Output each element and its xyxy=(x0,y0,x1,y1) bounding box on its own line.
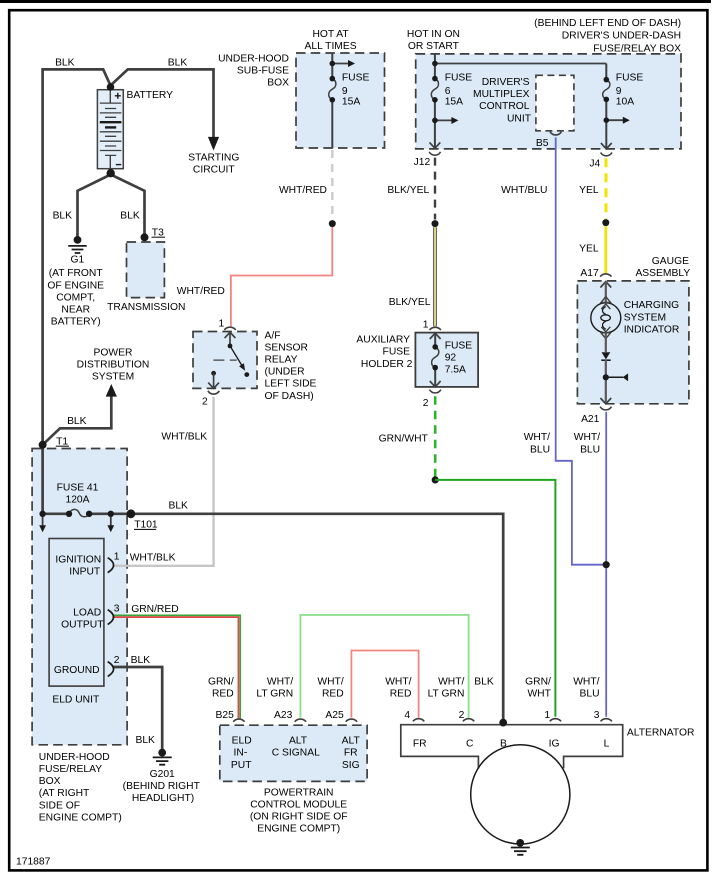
svg-text:WHT/: WHT/ xyxy=(267,676,293,687)
svg-text:RED: RED xyxy=(322,689,344,700)
wire BLK battery negative to ground G1 xyxy=(78,175,111,237)
svg-text:WHT/: WHT/ xyxy=(524,432,550,443)
svg-text:FUSE: FUSE xyxy=(445,72,473,83)
svg-text:FUSE: FUSE xyxy=(616,72,644,83)
svg-text:YEL: YEL xyxy=(579,185,599,196)
svg-text:1: 1 xyxy=(218,318,224,329)
svg-text:BLK/YEL: BLK/YEL xyxy=(387,185,429,196)
svg-text:BLU: BLU xyxy=(580,444,600,455)
svg-text:YEL: YEL xyxy=(579,244,599,255)
svg-text:BLK: BLK xyxy=(120,210,140,221)
svg-text:3: 3 xyxy=(594,710,600,721)
node YEL splice xyxy=(602,219,609,226)
svg-text:2: 2 xyxy=(202,396,208,407)
svg-text:FUSE: FUSE xyxy=(445,340,473,351)
under-hood fuse/relay box xyxy=(32,449,127,745)
svg-text:BATTERY: BATTERY xyxy=(127,90,174,101)
wire WHT/RED dashed below sub-fuse box xyxy=(331,150,333,220)
pin 4 connector xyxy=(413,719,424,722)
svg-text:WHT/RED: WHT/RED xyxy=(279,185,327,196)
svg-text:BLK: BLK xyxy=(168,58,188,69)
wire GRN/WHT dashed below aux fuse pin 2 xyxy=(434,396,437,477)
svg-text:ELD: ELD xyxy=(232,736,252,747)
pin 2 connector of auxiliary fuse holder xyxy=(430,390,441,393)
node sub-fuse branch dot xyxy=(330,61,336,67)
node T101 xyxy=(126,509,135,518)
svg-text:ALTERNATOR: ALTERNATOR xyxy=(627,728,695,739)
svg-text:L: L xyxy=(604,738,610,749)
node fuse 6 terminals and branch dots xyxy=(432,61,438,67)
svg-text:FUSE/RELAY: FUSE/RELAY xyxy=(39,764,102,775)
node WHT/BLU junction xyxy=(603,561,610,568)
wire inside driver's box fuse 9 10A xyxy=(605,64,607,149)
svg-text:(BEHIND LEFT END OF DASH): (BEHIND LEFT END OF DASH) xyxy=(534,18,681,29)
svg-text:3: 3 xyxy=(114,603,120,614)
wire BLK/YEL dashed below J12 xyxy=(434,158,436,220)
svg-text:FR: FR xyxy=(413,738,427,749)
svg-text:BOX: BOX xyxy=(267,78,289,89)
fuse 41 branch arrow left xyxy=(42,517,44,526)
svg-text:1: 1 xyxy=(544,710,550,721)
svg-text:C SIGNAL: C SIGNAL xyxy=(272,748,320,759)
svg-text:15A: 15A xyxy=(445,97,463,108)
node WHT/RED splice xyxy=(329,220,336,227)
svg-text:AUXILIARY: AUXILIARY xyxy=(356,335,410,346)
svg-text:GROUND: GROUND xyxy=(54,665,100,676)
svg-text:MULTIPLEX: MULTIPLEX xyxy=(473,89,530,100)
svg-text:RED: RED xyxy=(390,689,412,700)
transmission box T3 xyxy=(127,242,165,298)
svg-text:UNDER-HOOD: UNDER-HOOD xyxy=(218,53,289,64)
svg-text:ASSEMBLY: ASSEMBLY xyxy=(635,268,690,279)
node fuse 92 terminals xyxy=(432,344,438,350)
svg-text:WHT/: WHT/ xyxy=(438,676,464,687)
wire YEL dashed below J4 xyxy=(605,158,608,219)
pin 1 connector of auxiliary fuse holder xyxy=(430,327,441,330)
svg-text:B25: B25 xyxy=(215,710,234,721)
wire WHT/RED to A/F sensor relay pin 1 xyxy=(231,227,332,326)
svg-text:BLK/YEL: BLK/YEL xyxy=(389,297,431,308)
svg-text:WHT/: WHT/ xyxy=(574,432,600,443)
svg-text:LT GRN: LT GRN xyxy=(428,689,465,700)
ground G201 xyxy=(153,749,172,765)
svg-text:GRN/: GRN/ xyxy=(208,676,234,687)
svg-text:1: 1 xyxy=(423,319,429,330)
svg-text:BLK: BLK xyxy=(55,58,75,69)
svg-text:ENGINE COMPT): ENGINE COMPT) xyxy=(39,812,122,823)
wire YEL solid to gauge pin A17 xyxy=(604,226,607,273)
wire WHT/RED from PCM A25 to alternator FR xyxy=(351,651,418,718)
sub-fuse box branch arrow xyxy=(332,63,348,65)
svg-text:RED: RED xyxy=(212,689,234,700)
node battery positive junction xyxy=(107,83,115,91)
wire BLK main feed from fuse 41 to alternator B xyxy=(43,514,504,720)
svg-text:OF ENGINE: OF ENGINE xyxy=(47,280,104,291)
wire GRN/RED green conductor ELD pin 3 to PCM B25 xyxy=(112,615,240,718)
node fuse 9 15A terminals xyxy=(330,76,336,82)
svg-text:C: C xyxy=(466,738,474,749)
svg-text:SIDE OF: SIDE OF xyxy=(39,800,80,811)
svg-text:POWER: POWER xyxy=(94,347,133,358)
svg-text:GRN/WHT: GRN/WHT xyxy=(379,433,429,444)
wire WHT/BLU from gauge A21 to alternator L xyxy=(605,412,607,717)
svg-text:9: 9 xyxy=(342,86,348,97)
pin B5 connector xyxy=(550,132,561,135)
svg-text:LT GRN: LT GRN xyxy=(256,689,293,700)
fuse 41 branch arrow right xyxy=(110,517,112,526)
wire BLK battery negative to T3 transmission xyxy=(111,175,145,235)
wire BLK/YEL solid to auxiliary fuse holder pin 1 xyxy=(433,227,437,326)
ELD pin 1 connector xyxy=(108,558,114,573)
svg-text:ELD UNIT: ELD UNIT xyxy=(52,695,100,706)
ground at alternator body xyxy=(511,839,530,855)
svg-text:TRANSMISSION: TRANSMISSION xyxy=(107,302,185,313)
svg-text:B5: B5 xyxy=(536,138,549,149)
svg-text:ALL TIMES: ALL TIMES xyxy=(305,41,357,52)
wire WHT/BLU from multiplex B5 to splice xyxy=(556,137,603,564)
node alternator B junction xyxy=(499,719,507,727)
svg-text:CONTROL MODULE: CONTROL MODULE xyxy=(250,799,347,810)
svg-text:(AT RIGHT: (AT RIGHT xyxy=(39,788,90,799)
svg-text:FR: FR xyxy=(344,748,358,759)
svg-text:FUSE 41: FUSE 41 xyxy=(57,483,99,494)
svg-text:NEAR: NEAR xyxy=(61,305,90,316)
fuse 9 10A element xyxy=(603,80,610,100)
svg-text:1: 1 xyxy=(114,551,120,562)
wire BLK from ELD pin 2 to ground G201 xyxy=(112,667,162,749)
fuse 41 120A element xyxy=(69,509,89,516)
svg-text:GAUGE: GAUGE xyxy=(652,256,689,267)
svg-text:WHT/BLU: WHT/BLU xyxy=(501,185,547,196)
pin 2 connector xyxy=(463,719,474,722)
driver's multiplex control unit box xyxy=(536,75,574,131)
svg-text:A25: A25 xyxy=(325,710,344,721)
svg-text:A/F: A/F xyxy=(265,330,281,341)
gauge assembly box xyxy=(577,281,689,404)
wire inside auxiliary fuse holder with fuse 92 xyxy=(434,333,436,386)
wire WHT/LT GRN from PCM A23 to alternator C xyxy=(300,615,468,718)
wire BLK battery positive to left run down to T1 and fuse 41 xyxy=(43,69,111,513)
wire GRN/WHT solid to alternator IG xyxy=(435,480,555,717)
svg-text:BLU: BLU xyxy=(579,689,599,700)
svg-text:RELAY: RELAY xyxy=(265,355,298,366)
svg-text:CONTROL: CONTROL xyxy=(479,101,530,112)
svg-text:WHT/BLK: WHT/BLK xyxy=(130,552,176,563)
svg-text:IN-: IN- xyxy=(234,748,248,759)
wire WHT/BLK from relay pin 2 to ELD pin 1 xyxy=(112,397,213,566)
svg-text:BLK: BLK xyxy=(474,676,494,687)
svg-text:OUTPUT: OUTPUT xyxy=(61,620,104,631)
A/F sensor relay box xyxy=(193,332,257,389)
powertrain control module box xyxy=(220,725,367,781)
ground G1 xyxy=(68,236,86,253)
svg-text:WHT/: WHT/ xyxy=(573,676,599,687)
battery xyxy=(97,90,123,169)
svg-text:COMPT,: COMPT, xyxy=(56,292,95,303)
svg-text:(UNDER: (UNDER xyxy=(265,367,305,378)
top screen edge strip xyxy=(0,0,711,3)
pin A25 connector xyxy=(346,719,357,722)
svg-text:WHT: WHT xyxy=(527,689,551,700)
node T3 xyxy=(141,233,149,241)
ELD pin 3 connector xyxy=(108,610,114,625)
node GRN/WHT splice xyxy=(432,476,439,483)
A/F sensor relay internals xyxy=(208,332,249,388)
svg-text:15A: 15A xyxy=(342,97,360,108)
svg-text:SYSTEM: SYSTEM xyxy=(92,372,134,383)
charging system indicator xyxy=(591,282,628,404)
svg-text:DISTRIBUTION: DISTRIBUTION xyxy=(77,360,150,371)
svg-text:SUB-FUSE: SUB-FUSE xyxy=(237,65,289,76)
svg-text:2: 2 xyxy=(423,398,429,409)
svg-text:9: 9 xyxy=(616,86,622,97)
svg-text:DRIVER'S UNDER-DASH: DRIVER'S UNDER-DASH xyxy=(562,31,681,42)
svg-text:A21: A21 xyxy=(581,414,600,425)
svg-text:BLK: BLK xyxy=(131,655,151,666)
svg-text:SIG: SIG xyxy=(342,760,360,771)
svg-text:POWERTRAIN: POWERTRAIN xyxy=(264,787,334,798)
fuse 6 15A element xyxy=(431,79,438,100)
svg-text:PUT: PUT xyxy=(231,760,252,771)
svg-text:BATTERY): BATTERY) xyxy=(51,317,101,328)
wire BLK from T1 to power distribution system arrow xyxy=(43,396,112,444)
node T1 xyxy=(39,441,47,449)
pin 3 connector xyxy=(601,719,612,722)
auxiliary fuse holder 2 box xyxy=(415,333,478,387)
svg-text:WHT/RED: WHT/RED xyxy=(177,286,225,297)
pin J4 connector xyxy=(601,143,612,156)
alternator body circle xyxy=(471,745,570,844)
svg-text:STARTING: STARTING xyxy=(188,152,239,163)
svg-text:10A: 10A xyxy=(616,97,634,108)
node BLK/YEL splice xyxy=(432,220,439,227)
pin A17 connector xyxy=(600,274,611,277)
svg-text:7.5A: 7.5A xyxy=(445,365,466,376)
fuse 92 7.5A element xyxy=(432,347,439,368)
svg-text:HOLDER 2: HOLDER 2 xyxy=(361,359,413,370)
svg-text:BLK: BLK xyxy=(53,210,73,221)
diode inside gauge xyxy=(602,352,611,359)
svg-text:FUSE/RELAY BOX: FUSE/RELAY BOX xyxy=(593,43,681,54)
pin 1 connector of A/F sensor relay xyxy=(224,327,235,330)
svg-text:LEFT SIDE: LEFT SIDE xyxy=(265,379,317,390)
svg-text:SYSTEM: SYSTEM xyxy=(624,312,666,323)
svg-text:A23: A23 xyxy=(274,710,293,721)
svg-text:A17: A17 xyxy=(580,268,599,279)
svg-text:INPUT: INPUT xyxy=(69,567,101,578)
starting circuit arrow xyxy=(208,137,219,151)
node battery negative junction xyxy=(107,169,115,177)
svg-text:BLK: BLK xyxy=(168,500,188,511)
svg-text:FUSE: FUSE xyxy=(342,72,370,83)
svg-text:GRN/RED: GRN/RED xyxy=(131,604,178,615)
svg-text:SENSOR: SENSOR xyxy=(265,342,309,353)
driver's under-dash fuse/relay box xyxy=(416,54,681,149)
svg-text:UNIT: UNIT xyxy=(507,113,532,124)
svg-text:BOX: BOX xyxy=(39,776,61,787)
svg-text:(AT FRONT: (AT FRONT xyxy=(49,268,104,279)
svg-text:120A: 120A xyxy=(65,495,89,506)
svg-text:CIRCUIT: CIRCUIT xyxy=(193,165,235,176)
svg-text:INDICATOR: INDICATOR xyxy=(624,324,680,335)
svg-text:ALT: ALT xyxy=(289,736,308,747)
svg-text:WHT/BLK: WHT/BLK xyxy=(161,432,207,443)
svg-text:WHT/: WHT/ xyxy=(385,676,411,687)
svg-text:B: B xyxy=(500,738,507,749)
svg-text:BLK: BLK xyxy=(135,735,155,746)
svg-text:2: 2 xyxy=(114,655,120,666)
auxiliary fuse holder arrows xyxy=(430,333,441,387)
under-hood sub-fuse box xyxy=(296,53,385,148)
ELD unit box xyxy=(49,539,104,687)
svg-text:92: 92 xyxy=(445,353,457,364)
svg-text:UNDER-HOOD: UNDER-HOOD xyxy=(39,752,110,763)
svg-text:T1: T1 xyxy=(56,436,68,447)
svg-text:ALT: ALT xyxy=(342,736,361,747)
svg-text:DRIVER'S: DRIVER'S xyxy=(482,77,530,88)
svg-text:HOT IN ON: HOT IN ON xyxy=(407,29,460,40)
svg-text:(ON RIGHT SIDE OF: (ON RIGHT SIDE OF xyxy=(250,812,348,823)
pin J12 connector xyxy=(429,142,440,155)
power distribution system arrow xyxy=(106,384,117,397)
svg-text:BLK: BLK xyxy=(67,416,87,427)
wire GRN/RED red conductor ELD pin 3 to PCM B25 xyxy=(112,617,238,718)
fuse 9 15A element xyxy=(329,79,336,100)
pin B25 connector xyxy=(233,719,244,722)
svg-text:WHT/: WHT/ xyxy=(317,676,343,687)
svg-text:J4: J4 xyxy=(589,158,600,169)
svg-text:171887: 171887 xyxy=(16,857,51,868)
svg-text:GRN/: GRN/ xyxy=(525,676,551,687)
alternator box xyxy=(401,725,623,769)
svg-text:2: 2 xyxy=(459,710,465,721)
pin A21 connector xyxy=(600,407,611,410)
svg-text:FUSE: FUSE xyxy=(383,347,411,358)
svg-text:OF DASH): OF DASH) xyxy=(265,391,314,402)
wire joining fuse 6 and fuse 9 tops xyxy=(435,63,606,65)
svg-text:CHARGING: CHARGING xyxy=(624,300,680,311)
svg-text:LOAD: LOAD xyxy=(73,607,101,618)
svg-text:HEADLIGHT): HEADLIGHT) xyxy=(132,793,194,804)
fuse 9 branch arrow xyxy=(606,119,623,121)
svg-text:BLU: BLU xyxy=(530,444,550,455)
wire BLK battery positive to starting circuit xyxy=(111,69,214,137)
svg-text:J12: J12 xyxy=(414,157,431,168)
wire inside driver's box fuse 6 15A xyxy=(434,54,436,148)
svg-text:IGNITION: IGNITION xyxy=(55,554,101,565)
svg-text:4: 4 xyxy=(404,710,410,721)
svg-text:T101: T101 xyxy=(134,520,158,531)
node indicator branch dot xyxy=(603,374,609,380)
fuse 6 branch arrow xyxy=(435,119,452,121)
svg-text:(BEHIND RIGHT: (BEHIND RIGHT xyxy=(123,781,201,792)
pin A23 connector xyxy=(295,719,306,722)
node fuse 41 dots xyxy=(39,511,45,517)
ELD pin 2 connector xyxy=(108,662,114,677)
svg-text:HOT AT: HOT AT xyxy=(312,29,349,40)
pin 2 connector of A/F sensor relay xyxy=(208,391,219,394)
pin 1 connector xyxy=(550,719,561,722)
svg-text:G201: G201 xyxy=(150,769,175,780)
svg-text:IG: IG xyxy=(549,738,560,749)
svg-text:G1: G1 xyxy=(71,255,85,266)
svg-text:ENGINE COMPT): ENGINE COMPT) xyxy=(257,824,340,835)
svg-text:OR START: OR START xyxy=(408,41,460,52)
wire inside sub-fuse box with fuse 9 15A xyxy=(331,54,333,149)
svg-text:6: 6 xyxy=(445,86,451,97)
node fuse 9 10A terminals and branch dot xyxy=(604,77,610,83)
